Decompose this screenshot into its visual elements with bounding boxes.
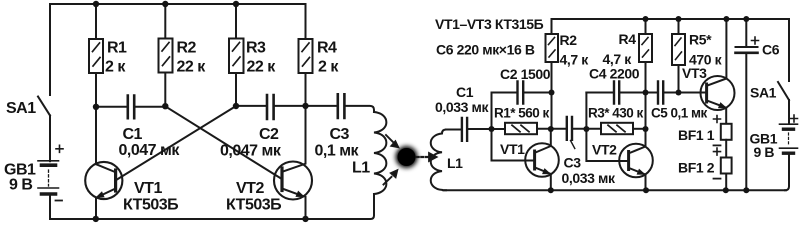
- svg-text:С3: С3: [564, 155, 582, 171]
- battery GB1 (receiver): [780, 115, 798, 153]
- capacitor C1 (receiver): [446, 118, 505, 141]
- resistor R3*: [601, 123, 633, 134]
- switch SA1: [38, 97, 50, 116]
- resistor R2 (receiver): [546, 19, 559, 93]
- svg-text:R2: R2: [177, 40, 197, 57]
- svg-text:2 к: 2 к: [105, 59, 126, 76]
- svg-text:0,033 мк: 0,033 мк: [435, 99, 489, 115]
- transistor VT1: [85, 107, 122, 219]
- capacitor C2: [236, 95, 306, 119]
- wire R2 bottom drop to collector node: [551, 93, 553, 130]
- wire VT1 base diagonal from R3 node: [117, 106, 236, 180]
- capacitor C3 (receiver): [567, 117, 601, 149]
- wire C4 left drop to VT2 base node: [585, 93, 587, 130]
- resistor R3: [229, 4, 244, 106]
- svg-text:R4: R4: [317, 40, 337, 57]
- inductor L1 (transmitter coil): [374, 112, 386, 194]
- svg-text:BF1 1: BF1 1: [678, 127, 715, 143]
- wire transmitter bottom rail: [50, 194, 374, 219]
- svg-text:С1: С1: [123, 126, 143, 143]
- svg-text:L1: L1: [447, 155, 463, 171]
- svg-text:22 к: 22 к: [177, 59, 207, 76]
- svg-text:SA1: SA1: [6, 100, 36, 117]
- svg-text:VT2: VT2: [236, 180, 264, 197]
- svg-text:R2: R2: [560, 32, 578, 48]
- headphone BF1 element 2: [714, 148, 732, 179]
- capacitor C6: [736, 19, 759, 190]
- headphone BF1 element 1: [714, 116, 732, 146]
- capacitor C1: [96, 96, 165, 119]
- svg-text:R1* 560 к: R1* 560 к: [494, 106, 550, 121]
- svg-text:VT1–VT3 КТ315Б: VT1–VT3 КТ315Б: [435, 16, 544, 32]
- svg-text:R5*: R5*: [689, 32, 712, 48]
- junction node dots (receiver): [489, 16, 750, 193]
- wire GB1 to bottom rail (receiver): [785, 155, 789, 190]
- wire BF1 to bottom rail: [725, 174, 727, 191]
- svg-text:4,7 к: 4,7 к: [560, 52, 590, 68]
- resistor R4: [299, 4, 313, 106]
- radiated signal dot: [396, 146, 418, 168]
- svg-text:КТ503Б: КТ503Б: [123, 197, 178, 214]
- wire SA1 to GB1 (receiver): [788, 100, 790, 124]
- dashed arrow to receiver coil: [417, 153, 438, 162]
- svg-text:L1: L1: [352, 160, 370, 177]
- svg-text:С3: С3: [330, 126, 350, 143]
- wire GB1 to bottom rail: [49, 196, 51, 220]
- resistor R2: [159, 4, 173, 106]
- capacitor C2 1500: [492, 82, 552, 104]
- svg-text:22 к: 22 к: [247, 59, 277, 76]
- svg-text:R1: R1: [107, 40, 127, 57]
- svg-text:SA1: SA1: [750, 85, 777, 101]
- svg-text:VT2: VT2: [592, 142, 617, 158]
- junction node dots (transmitter): [93, 1, 309, 222]
- transistor VT2: [274, 106, 312, 219]
- wire R4 bottom drop to VT2 collector node: [645, 93, 647, 130]
- svg-text:КТ503Б: КТ503Б: [226, 197, 281, 214]
- wire receiver top rail: [552, 18, 790, 20]
- svg-text:С5 0,1 мк: С5 0,1 мк: [651, 106, 708, 121]
- svg-text:С2 1500: С2 1500: [500, 66, 551, 82]
- svg-text:BF1 2: BF1 2: [678, 160, 715, 176]
- arrow from coil to dot (top): [386, 135, 398, 147]
- wire SA1 feed (receiver right): [788, 19, 790, 81]
- svg-text:С1: С1: [456, 84, 474, 100]
- inductor L1 (receiver coil): [431, 130, 446, 191]
- svg-text:9 В: 9 В: [9, 177, 32, 194]
- svg-text:9 В: 9 В: [754, 144, 775, 160]
- svg-text:R3: R3: [246, 40, 266, 57]
- wire C2 left drop to VT1 base node: [491, 93, 493, 130]
- wire VT2 base diagonal from R2 node: [165, 106, 281, 178]
- transistor VT3: [701, 19, 735, 124]
- svg-text:С6: С6: [762, 42, 780, 58]
- svg-text:С4 2200: С4 2200: [589, 66, 640, 82]
- wire transmitter top rail: [50, 3, 306, 5]
- resistor R1: [89, 4, 103, 107]
- svg-text:0,047 мк: 0,047 мк: [220, 143, 282, 160]
- resistor R4 (receiver): [639, 19, 652, 93]
- svg-text:R4: R4: [619, 31, 637, 47]
- svg-text:0,1 мк: 0,1 мк: [315, 143, 360, 160]
- svg-text:VT3: VT3: [682, 65, 707, 81]
- capacitor C3: [306, 94, 375, 118]
- wire SA1 to GB1: [49, 116, 51, 162]
- svg-text:2 к: 2 к: [318, 59, 339, 76]
- wire receiver bottom rail: [444, 189, 787, 191]
- svg-text:VT1: VT1: [134, 180, 162, 197]
- wire BF1-1 to BF1-2: [725, 140, 727, 158]
- resistor R1*: [505, 123, 537, 134]
- capacitor C5: [646, 82, 707, 104]
- capacitor C4 2200: [586, 82, 645, 104]
- wire R1* right to C3: [537, 128, 567, 130]
- wire R3* right to collector node: [633, 128, 646, 130]
- arrow from coil to dot (bottom): [384, 170, 398, 184]
- transistor VT2 (receiver): [586, 129, 652, 190]
- battery GB1: [38, 145, 63, 200]
- transistor VT1 (receiver): [492, 129, 559, 190]
- svg-text:С6 220 мк×16 В: С6 220 мк×16 В: [436, 42, 535, 58]
- svg-text:0,047 мк: 0,047 мк: [119, 142, 181, 159]
- svg-text:R3* 430 к: R3* 430 к: [588, 106, 644, 121]
- svg-text:0,033 мк: 0,033 мк: [562, 170, 616, 186]
- wire SA1 top feed: [49, 4, 51, 95]
- svg-text:VT1: VT1: [500, 141, 525, 157]
- switch SA1 (receiver): [778, 82, 789, 100]
- svg-text:С2: С2: [259, 126, 279, 143]
- resistor R5*: [672, 19, 685, 93]
